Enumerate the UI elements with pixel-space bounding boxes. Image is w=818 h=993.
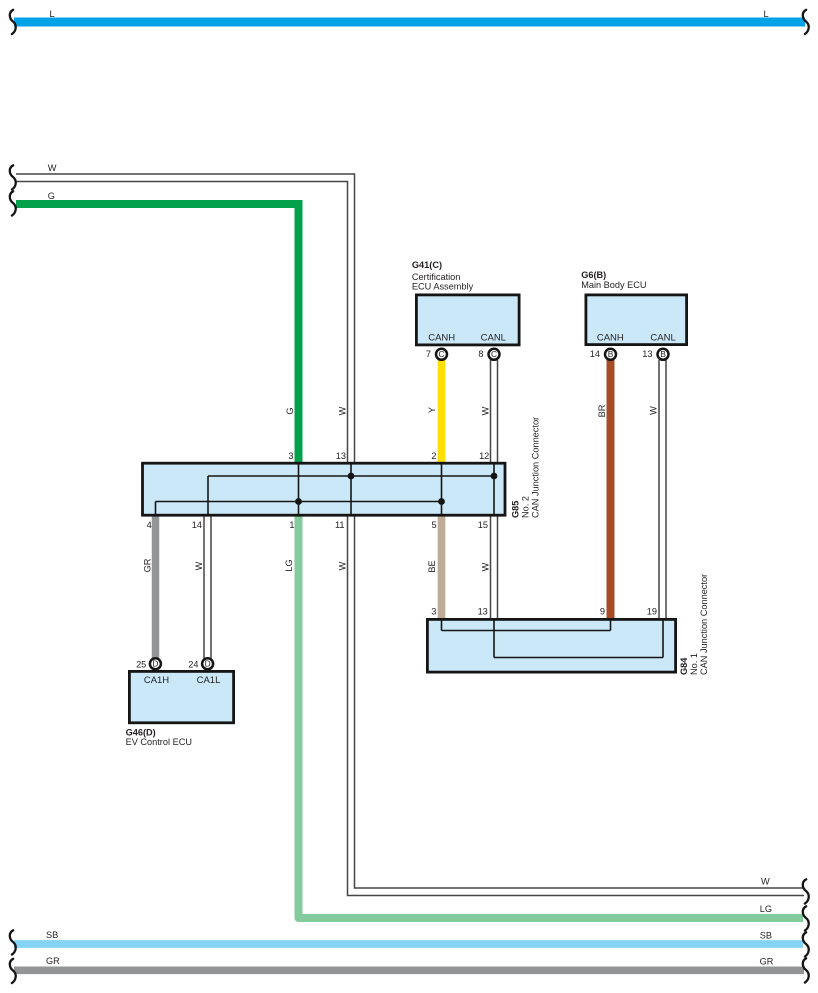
svg-text:W: W bbox=[48, 163, 57, 173]
wire W (G85 pin 14 to G46 pin 24) bbox=[203, 515, 205, 659]
connector G46(D) EV Control ECU box bbox=[129, 671, 233, 722]
svg-text:14: 14 bbox=[192, 520, 202, 530]
svg-text:W: W bbox=[337, 561, 347, 570]
svg-text:3: 3 bbox=[288, 451, 293, 461]
wire W (G41 pin 8 to G85 pin 12) bbox=[490, 360, 492, 463]
svg-text:W: W bbox=[649, 406, 659, 415]
svg-text:W: W bbox=[337, 406, 347, 415]
svg-text:C: C bbox=[491, 349, 497, 359]
G85 junction dot F-CANL bbox=[491, 473, 498, 480]
svg-text:LG: LG bbox=[760, 904, 772, 914]
svg-text:19: 19 bbox=[647, 607, 657, 617]
wire SB (sky blue, bottom) bbox=[14, 940, 803, 948]
svg-text:G85: G85 bbox=[510, 501, 520, 518]
svg-text:CANL: CANL bbox=[481, 333, 506, 344]
G85 junction dot D-CANL bbox=[348, 473, 355, 480]
wire W (G6 pin 13 to G84 pin 19) bbox=[658, 360, 660, 620]
connector G41(C) Certification ECU Assembly box bbox=[416, 295, 519, 345]
G85 junction dot C-CANH bbox=[295, 498, 302, 505]
pin circle G46 pin25 D bbox=[150, 658, 161, 669]
pin circle G6 pin14 B bbox=[605, 349, 616, 360]
G85 internal vertical pin 3-1 bbox=[298, 462, 300, 516]
svg-text:EV Control ECU: EV Control ECU bbox=[126, 737, 192, 747]
G85 internal vertical pin 12-15 bbox=[493, 462, 495, 516]
break symbol W left bbox=[10, 165, 16, 189]
G84 internal CANL bus bbox=[494, 657, 663, 659]
svg-text:GR: GR bbox=[46, 956, 60, 966]
svg-text:12: 12 bbox=[479, 451, 489, 461]
break symbol SB right bbox=[803, 932, 809, 956]
svg-text:5: 5 bbox=[431, 520, 436, 530]
svg-text:2: 2 bbox=[431, 451, 436, 461]
G84 internal vertical pin 9 bbox=[610, 619, 612, 631]
svg-text:13: 13 bbox=[478, 607, 488, 617]
wire GR (gray, bottom) bbox=[14, 966, 804, 974]
wire W (from left, to G85 pin 13, down to bottom right) outer line bbox=[16, 174, 804, 888]
G84 internal vertical pin 13 bbox=[493, 619, 495, 658]
wire GR (gray, G85 pin 4 to G46 pin 25) bbox=[152, 515, 160, 659]
G85 junction dot E-CANH bbox=[438, 498, 445, 505]
svg-text:Certification: Certification bbox=[412, 272, 461, 282]
wire W (G85 pin 15 to G84 pin 13) bbox=[490, 515, 492, 620]
svg-text:Main Body ECU: Main Body ECU bbox=[581, 280, 646, 290]
svg-text:C: C bbox=[438, 349, 444, 359]
svg-text:13: 13 bbox=[336, 451, 346, 461]
svg-text:CAN Junction Connector: CAN Junction Connector bbox=[530, 417, 540, 518]
svg-text:11: 11 bbox=[335, 520, 345, 530]
break symbol SB left bbox=[10, 930, 16, 954]
svg-text:CANH: CANH bbox=[597, 333, 624, 344]
svg-text:GR: GR bbox=[760, 957, 774, 967]
wire Y (yellow, G41 pin 7 to G85 pin 2) bbox=[438, 360, 446, 463]
svg-text:CAN Junction Connector: CAN Junction Connector bbox=[699, 574, 709, 675]
svg-text:CANH: CANH bbox=[428, 333, 455, 344]
svg-text:15: 15 bbox=[478, 520, 488, 530]
svg-text:3: 3 bbox=[431, 607, 436, 617]
svg-text:W: W bbox=[194, 561, 204, 570]
pin circle G41 pin7 C bbox=[436, 349, 447, 360]
svg-text:1: 1 bbox=[289, 520, 294, 530]
G85 internal vertical pin 2-5 bbox=[441, 462, 443, 516]
break symbol L right bbox=[803, 10, 809, 34]
connector G6(B) Main Body ECU box bbox=[586, 295, 687, 345]
svg-text:BE: BE bbox=[427, 560, 437, 572]
wire BE (beige, G85 pin 5 to G84 pin 3) bbox=[438, 515, 446, 620]
svg-text:13: 13 bbox=[642, 349, 652, 359]
svg-text:GR: GR bbox=[143, 558, 153, 572]
svg-text:D: D bbox=[205, 659, 211, 669]
wire BR (brown, G6 pin 14 to G84 pin 9) bbox=[607, 360, 615, 620]
pin circle G41 pin8 C bbox=[489, 349, 500, 360]
svg-text:G41(C): G41(C) bbox=[412, 260, 442, 270]
svg-text:ECU Assembly: ECU Assembly bbox=[412, 282, 474, 292]
pin circle G6 pin13 B bbox=[658, 349, 669, 360]
G84 internal CANH bus bbox=[442, 630, 611, 632]
svg-text:SB: SB bbox=[760, 931, 772, 941]
G84 internal vertical pin 3 bbox=[441, 619, 443, 631]
svg-text:SB: SB bbox=[46, 930, 58, 940]
wire G (green, from left to G85 pin 3) bbox=[16, 204, 299, 463]
svg-text:LG: LG bbox=[284, 559, 294, 571]
G84 internal vertical pin 19 bbox=[662, 619, 664, 658]
svg-text:L: L bbox=[764, 9, 769, 19]
svg-text:14: 14 bbox=[590, 349, 600, 359]
svg-text:CANL: CANL bbox=[650, 333, 675, 344]
G85 internal CANL bus bbox=[208, 475, 494, 477]
pin circle G46 pin24 D bbox=[202, 658, 213, 669]
G85 internal vertical pin 13-11 bbox=[350, 462, 352, 516]
G85 internal vertical pin 14 bbox=[207, 476, 209, 516]
svg-text:G46(D): G46(D) bbox=[126, 728, 156, 738]
connector G84 No.1 CAN Junction Connector box bbox=[427, 619, 675, 672]
break symbol L left bbox=[10, 10, 16, 34]
G85 internal vertical pin 4 bbox=[155, 502, 157, 517]
break symbol G left bbox=[10, 191, 16, 215]
break symbol W right bbox=[803, 879, 809, 903]
break symbol LG right bbox=[803, 906, 809, 930]
svg-text:8: 8 bbox=[478, 349, 483, 359]
svg-text:D: D bbox=[152, 659, 158, 669]
svg-text:W: W bbox=[481, 562, 491, 571]
wire L (blue, top) bbox=[14, 18, 805, 27]
break symbol GR left bbox=[10, 959, 16, 983]
wire LG (light green, G85 pin 1 down to bottom right) bbox=[299, 515, 804, 918]
svg-text:25: 25 bbox=[136, 660, 146, 670]
svg-text:W: W bbox=[761, 877, 770, 887]
svg-text:G: G bbox=[48, 191, 55, 201]
svg-text:24: 24 bbox=[188, 660, 198, 670]
svg-text:CA1L: CA1L bbox=[197, 675, 221, 686]
svg-text:G84: G84 bbox=[679, 657, 689, 675]
svg-text:Y: Y bbox=[427, 407, 437, 413]
svg-text:G: G bbox=[285, 407, 295, 414]
svg-text:G6(B): G6(B) bbox=[581, 270, 606, 280]
svg-text:9: 9 bbox=[600, 607, 605, 617]
svg-text:L: L bbox=[50, 9, 55, 19]
svg-text:4: 4 bbox=[147, 520, 152, 530]
svg-text:BR: BR bbox=[597, 404, 607, 417]
svg-text:No. 2: No. 2 bbox=[520, 496, 530, 518]
G85 internal CANH bus bbox=[156, 501, 442, 503]
connector G85 No.2 CAN Junction Connector box bbox=[143, 463, 506, 515]
svg-text:B: B bbox=[608, 349, 614, 359]
wire W (from left, to G85 pin 13, down to bottom right) inner line bbox=[16, 182, 804, 896]
break symbol GR right bbox=[803, 958, 809, 982]
svg-text:B: B bbox=[660, 349, 666, 359]
svg-text:7: 7 bbox=[426, 349, 431, 359]
svg-text:No. 1: No. 1 bbox=[689, 653, 699, 675]
svg-text:W: W bbox=[481, 406, 491, 415]
svg-text:CA1H: CA1H bbox=[144, 675, 169, 686]
